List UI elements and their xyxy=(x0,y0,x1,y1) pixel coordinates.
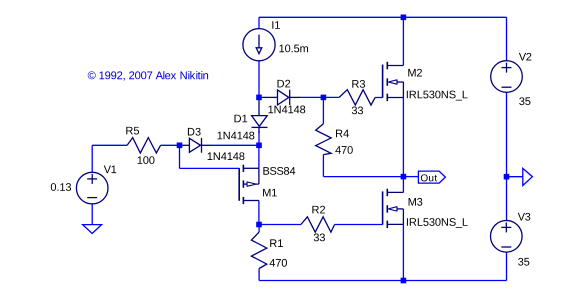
wire R1 bottom lead xyxy=(258,269,260,281)
wire R2 to M3 gate xyxy=(335,224,383,226)
value IRL530NS_L of M3 xyxy=(407,218,468,228)
wire M2 drain vertical xyxy=(402,17,404,65)
label R2 xyxy=(312,206,325,214)
label R1 xyxy=(270,239,283,247)
value 0.13 xyxy=(51,183,71,191)
wire right rail lower xyxy=(506,252,508,281)
value 1N4148 of D1 xyxy=(208,152,245,160)
node Out flag xyxy=(418,171,445,183)
label I1 xyxy=(272,21,280,29)
label R4 xyxy=(336,130,349,138)
resistor R2 xyxy=(301,217,335,232)
resistor R5 xyxy=(127,138,161,153)
wire bottom rail xyxy=(259,280,506,282)
voltage source V1 xyxy=(76,172,108,204)
wire R3 to M2 gate xyxy=(375,97,383,99)
wire out row xyxy=(323,176,403,178)
wire D3 cathode to node xyxy=(209,144,259,146)
junction out row xyxy=(401,174,407,180)
wire node to output port xyxy=(507,176,523,178)
resistor R3 xyxy=(339,90,375,105)
value 470 of R4 xyxy=(335,146,352,154)
wire node A down xyxy=(179,145,181,168)
value 35 of V3 xyxy=(518,258,529,266)
value IRL530NS_L of M2 xyxy=(407,91,468,101)
output port arrow xyxy=(523,168,533,185)
junction node A (R5/D3) xyxy=(177,143,183,149)
label D3 xyxy=(188,128,201,136)
copyright note xyxy=(88,71,208,81)
label Out xyxy=(421,174,437,181)
label D1 xyxy=(235,115,248,123)
wire node to R2 xyxy=(259,224,301,226)
value 10.5m xyxy=(279,45,308,53)
label M3 xyxy=(409,198,423,206)
wire R1 top lead xyxy=(258,225,260,233)
wire M3 source vertical xyxy=(402,224,404,280)
value 33 of R2 xyxy=(314,234,325,242)
wire I1 top lead xyxy=(258,17,260,28)
wire R4 bottom lead xyxy=(322,155,324,177)
label V2 xyxy=(519,53,532,61)
wire M3 drain vertical xyxy=(402,177,404,193)
wire R5 to node A xyxy=(161,144,180,146)
wire M2 source vertical xyxy=(402,98,404,177)
wire I1 bottom lead xyxy=(258,61,260,98)
junction V2/V3 node xyxy=(504,174,510,180)
value 1N4148 of D3 xyxy=(218,132,255,140)
wire top rail xyxy=(259,16,507,18)
voltage source V3 xyxy=(491,221,523,253)
ground xyxy=(83,225,102,234)
label R3 xyxy=(352,80,365,88)
label D2 xyxy=(278,80,291,88)
value BSS84 of M1 xyxy=(263,167,295,175)
value 1N4148 of D2 xyxy=(268,106,305,114)
voltage source V2 xyxy=(491,61,523,93)
resistor R4 xyxy=(316,124,331,155)
wire right rail middle xyxy=(506,92,508,220)
diode D3 xyxy=(182,138,210,153)
wire V1 row to R5 xyxy=(92,144,127,146)
label V1 xyxy=(104,166,117,174)
wire M1 source vertical xyxy=(258,145,260,168)
wire V1 top vertical xyxy=(91,145,93,172)
value 33 of R3 xyxy=(352,107,363,115)
wire M1 drain vertical xyxy=(258,201,260,225)
transistor M1 (pmos) xyxy=(239,165,259,204)
wire D2 cathode to node xyxy=(299,96,324,98)
wire V1 bottom to ground xyxy=(91,204,93,225)
value 35 of V2 xyxy=(519,97,530,105)
junction I1/D1/D2 xyxy=(256,95,262,101)
diode D2 xyxy=(262,90,300,105)
wire right rail upper xyxy=(506,17,508,61)
transistor M3 xyxy=(383,189,404,228)
junction D3/D1/M1 xyxy=(256,143,262,149)
label M2 xyxy=(408,69,422,77)
label M1 xyxy=(263,189,277,197)
resistor R1 xyxy=(251,232,266,268)
junction top rail at M2 drain xyxy=(401,15,407,21)
wire D1 cathode to node xyxy=(258,131,260,145)
value 470 of R1 xyxy=(270,259,287,267)
wire R4 top lead xyxy=(322,97,324,123)
label V3 xyxy=(518,213,531,221)
current source I1 xyxy=(243,29,275,61)
transistor M2 xyxy=(383,62,404,101)
wire node to R3 xyxy=(323,96,339,98)
wire M1 gate lead xyxy=(180,167,240,169)
value 100 xyxy=(138,156,155,164)
junction D2/R3/R4 xyxy=(321,95,327,101)
junction M1/R2/R1 xyxy=(256,222,262,228)
diode D1 xyxy=(252,100,268,133)
label R5 xyxy=(126,127,139,135)
wire to Out flag xyxy=(403,176,418,178)
junction bottom rail at M3 source xyxy=(401,278,407,284)
